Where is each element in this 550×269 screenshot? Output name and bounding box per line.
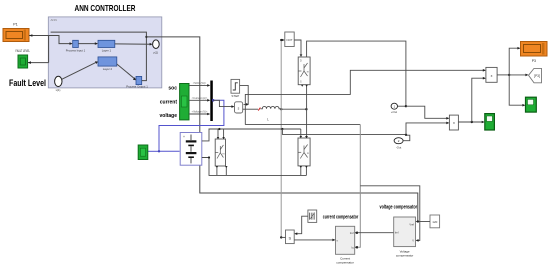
svg-text:current: current [160,100,178,106]
wire soc row [189,84,209,86]
wire controlled source output to inductor [243,108,258,110]
block Process Input 1 [66,40,86,52]
wire battery plus to rail [202,129,301,141]
svg-text:P3: P3 [532,59,536,63]
block Layer 2 [98,57,117,71]
sawtooth carrier block [308,210,317,222]
wire IGBT1 drain up and over to measurement column [307,41,406,106]
svg-text:+: + [183,135,185,139]
wire Vout sense to voltage compensator [356,125,360,248]
svg-text:Iref: Iref [395,231,399,235]
wire NOT output to IGBT1 gate [294,40,301,54]
wire Vout node up to product2 input2 [406,123,449,135]
wire ANN feedback loop [51,32,147,81]
node gate net dot [280,39,282,41]
svg-text:P1: P1 [13,23,17,27]
wire rail drop into Q3 top [300,129,302,136]
wire circle2 loop to Vout node [403,135,410,141]
node inductor output junction [280,108,282,110]
svg-text:x: x [491,74,493,78]
wire Q3 bottoms to rail [300,166,302,175]
wire rail drops into Q2 [217,129,219,137]
block S comparator [286,230,295,244]
mosfet Q1 [298,57,310,85]
svg-text:Process Output 1: Process Output 1 [126,85,148,89]
wire ANN output to bottom bus [146,37,417,222]
wire S output to gate net [281,236,285,238]
battery subsystem (green) [180,84,189,120]
node blue junction on bus [212,99,215,102]
node S gate junction [280,236,282,238]
controlled source block [235,102,243,113]
wire fanout to goto tag [509,74,527,76]
wire rail to Vout sense line [282,129,406,134]
wire current row [189,99,209,101]
svg-text:V: V [412,239,414,243]
node fanout junction [508,74,510,76]
subsystem box ANN CONTROLLER [48,17,162,88]
svg-text:L: L [267,118,269,122]
node Iref dot [356,232,358,234]
svg-text:x{1}: x{1} [56,88,61,92]
svg-text:ANN CONTROLLER: ANN CONTROLLER [75,3,136,13]
source FAULT LEVEL [15,49,30,68]
source STEP [231,79,240,98]
svg-text:s: s [238,107,240,111]
svg-text:x: x [453,121,455,125]
wire STEP to controlled source [240,85,249,104]
svg-text:Layer 2: Layer 2 [103,67,113,71]
mosfet Q3 [298,138,310,166]
outport circle y{1} [153,40,160,55]
wire constant to Vref [417,221,430,223]
svg-text:<Current (A)>: <Current (A)> [192,96,208,100]
wire Vsense top line [245,70,485,124]
node Iq dot [356,246,358,248]
subsystem current compensator [336,226,355,264]
wire current tap to source block (blue selected) [148,100,224,151]
node rail junction at 219 [218,128,220,130]
node battery minus junction [208,156,210,158]
marker red break [258,108,260,111]
mosfet Q2 [215,139,225,166]
wire S to current compensator [294,239,334,241]
svg-text:NOT: NOT [287,38,293,42]
node rail junction at 282 [281,128,283,130]
block Process Output 1 [126,76,148,88]
svg-text:STEP: STEP [231,94,239,98]
svg-text:S: S [288,236,291,241]
wire FAULT LEVEL net to P1 and ANN input [28,36,72,63]
svg-text:voltage compensator: voltage compensator [380,205,418,211]
product block P2 [449,115,458,130]
wire junction up to product1 input2 [472,78,485,122]
svg-text:m: m [307,71,309,74]
source block small green [138,145,148,160]
outport circle 2 minus [394,138,403,150]
wire Layer2 to Process Output 1 diagonal [117,64,135,79]
node ANN output tee [145,36,147,38]
wire Q2 bottoms to rail [216,166,218,175]
wire IGBT1 source down to inductor node [306,85,308,138]
wire circle1 to node [398,105,406,107]
node measurement junction [405,105,407,107]
wire fanout down to display D2 [509,75,523,105]
wire battery minus to bottom rail [202,158,307,176]
inport circle x{1} [55,76,62,92]
node Vout junction [405,134,407,136]
svg-text:-Out: -Out [396,146,402,150]
wire fanout up to scope P3 [509,48,519,75]
svg-text:compensator: compensator [336,261,353,265]
svg-text:m: m [222,153,224,156]
gate NOT [285,32,294,47]
wire Vsense bottom line [245,124,360,126]
goto tag P3 [529,68,542,82]
wire product1 output to fanout [497,74,509,76]
svg-text:Layer 1: Layer 1 [102,49,112,53]
svg-text:soc: soc [168,86,177,92]
display block D2 [526,97,537,112]
svg-text:120: 120 [432,220,437,224]
svg-text:ANN: ANN [51,18,57,22]
wire PI1 to Layer1 [78,43,97,45]
svg-text:y{1}: y{1} [153,51,158,55]
outport circle 1 plus [391,103,398,114]
svg-text:voltage: voltage [159,113,177,119]
wire voltage row [189,113,209,115]
svg-text:compensator: compensator [396,253,413,257]
node product2 out junction [471,121,473,123]
wire sawtooth to S block [296,216,308,234]
block Layer 1 [98,40,115,52]
product block P1 [486,67,497,82]
wire Layer1 to outport [115,43,151,45]
svg-text:m: m [307,152,309,155]
subsystem voltage compensator [394,217,416,257]
svg-text:Fault Level: Fault Level [9,78,46,88]
svg-text:Process Input 1: Process Input 1 [66,49,86,53]
svg-text:FAULT LEVEL: FAULT LEVEL [15,49,30,53]
inductor L [261,106,308,121]
svg-text:[P3]: [P3] [534,74,540,78]
wire gate signal vertical [280,40,282,237]
bus selector bar [210,81,213,122]
node STEP wire junction [246,103,248,105]
node blue junction at source [158,150,160,152]
scope P1 [3,23,29,42]
svg-text:Iref: Iref [350,231,354,235]
wire x{1} to Layer2 diagonal [62,62,97,79]
svg-text:current compensator: current compensator [323,215,359,221]
node Vref junction [417,220,419,222]
wire voltage compensator output to Iref [357,232,394,234]
svg-text:<SOC (%)>: <SOC (%)> [193,81,207,85]
battery block Simscape [180,133,202,166]
scope P3 [521,42,548,64]
node inductor to igbt2 junction [305,108,307,110]
wire node to product2 input1 [406,106,449,118]
svg-text:D: D [300,60,302,63]
svg-text:<Voltage (V)>: <Voltage (V)> [192,110,208,114]
svg-text:Vref: Vref [409,223,414,227]
svg-text:+Out: +Out [391,110,397,114]
constant 120 [430,215,440,228]
wire product2 output [458,121,483,123]
display block D1 [485,114,495,130]
wire current tap to controlled source block [213,100,234,106]
